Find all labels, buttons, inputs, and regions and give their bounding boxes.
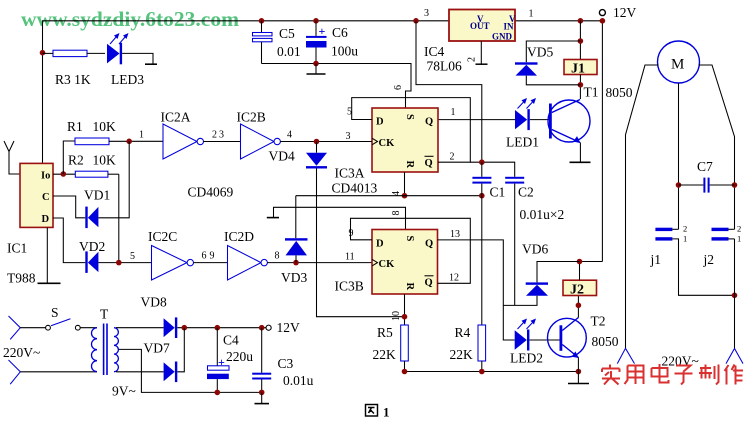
- svg-text:C4: C4: [223, 333, 239, 348]
- svg-text:Q: Q: [425, 239, 433, 250]
- svg-text:1: 1: [451, 107, 456, 118]
- svg-text:CK: CK: [379, 138, 396, 149]
- resistor R1: [67, 119, 163, 145]
- svg-text:5: 5: [130, 251, 135, 262]
- svg-text:J1: J1: [571, 62, 585, 77]
- diode VD1: [84, 188, 110, 229]
- wire prong to switch: [20, 327, 45, 329]
- capacitor C1: [472, 162, 505, 199]
- wire Io pin to R2: [53, 173, 75, 175]
- svg-text:T: T: [100, 307, 109, 322]
- chassis stub LED3: [145, 63, 157, 65]
- switch S: [46, 305, 81, 330]
- node Io: [61, 171, 67, 177]
- wire IC4 out to 12V corner: [515, 21, 602, 262]
- svg-text:LED3: LED3: [111, 72, 144, 87]
- svg-text:3: 3: [424, 8, 429, 19]
- ground stub S line: [267, 207, 406, 229]
- wire motor center lead: [678, 83, 680, 229]
- wire j2 down: [734, 239, 736, 349]
- 12V terminal left: [266, 325, 271, 330]
- wire IC3A R pin: [404, 172, 406, 196]
- wire IC3B Q pin13 to LED2: [438, 240, 515, 340]
- svg-text:IC2A: IC2A: [161, 110, 191, 125]
- inverter IC2D: [224, 229, 267, 280]
- wire bottom rail: [405, 371, 579, 373]
- wire J1 feed: [579, 21, 581, 60]
- svg-text:CD4013: CD4013: [332, 181, 378, 196]
- svg-text:10: 10: [391, 311, 402, 321]
- wire rail down x416 to cap node: [416, 21, 482, 163]
- node C3 bottom: [259, 390, 265, 396]
- svg-text:VD2: VD2: [79, 239, 105, 254]
- 12V terminal top: [599, 10, 605, 16]
- svg-text:R5: R5: [377, 325, 393, 340]
- node rail-12V: [600, 18, 606, 24]
- wire J2 top feed: [579, 262, 581, 281]
- IC U IC3B CD4013: [335, 230, 438, 295]
- char 制: [699, 365, 719, 385]
- wire motor left lead: [626, 65, 659, 348]
- LED LED3: [107, 33, 144, 87]
- svg-text:78L06: 78L06: [427, 59, 462, 74]
- plug 220V lower prong: [9, 360, 21, 384]
- svg-text:22K: 22K: [373, 347, 397, 362]
- svg-text:CD4069: CD4069: [188, 185, 234, 200]
- svg-text:2: 2: [212, 130, 217, 141]
- char 子: [675, 366, 693, 385]
- svg-text:8: 8: [391, 211, 402, 216]
- node C7 right: [732, 182, 738, 188]
- svg-text:C2: C2: [518, 185, 534, 200]
- svg-text:10K: 10K: [93, 119, 117, 134]
- svg-text:D: D: [376, 117, 384, 128]
- IC4 gnd stub pin2: [467, 41, 488, 64]
- svg-text:VD5: VD5: [527, 45, 553, 60]
- node VD5 bottom: [578, 82, 584, 88]
- svg-text:J2: J2: [570, 283, 584, 298]
- svg-text:8: 8: [275, 251, 280, 262]
- wire secondary top to VD8: [116, 327, 164, 329]
- plug prong motor left: [617, 348, 634, 363]
- node rail-C5: [259, 18, 265, 24]
- svg-text:9: 9: [210, 251, 215, 262]
- antenna: [4, 141, 20, 174]
- inverter IC2C: [148, 229, 194, 280]
- node R pin: [402, 193, 408, 199]
- char 作: [725, 365, 744, 385]
- motor M: [658, 41, 700, 83]
- ground T1: [570, 161, 591, 163]
- ground IC1: [38, 282, 61, 284]
- svg-text:VD3: VD3: [281, 270, 307, 285]
- wire T2 emitter: [577, 358, 579, 372]
- svg-text:IC2C: IC2C: [148, 229, 177, 244]
- node rail-C6: [313, 18, 319, 24]
- node J2 bottom: [576, 303, 582, 309]
- wire top 6V rail: [43, 21, 450, 164]
- wire motor right lead: [699, 65, 735, 229]
- svg-text:1: 1: [139, 130, 144, 141]
- ground C6: [307, 64, 326, 75]
- plug prong motor right: [726, 349, 743, 364]
- node rail-x416: [413, 18, 419, 24]
- svg-text:13: 13: [450, 229, 460, 240]
- transistor T1 8050: [548, 100, 590, 144]
- svg-text:3: 3: [219, 130, 224, 141]
- svg-text:GND: GND: [492, 32, 513, 42]
- IC U IC3A CD4013: [332, 108, 439, 196]
- svg-text:C: C: [42, 192, 50, 203]
- svg-text:+: +: [218, 355, 225, 369]
- node R5 top: [402, 314, 408, 320]
- node rail R4: [479, 369, 485, 375]
- diode VD4: [269, 142, 328, 169]
- node C3 top: [259, 325, 265, 331]
- node IC2A input: [126, 139, 132, 145]
- resistor R4: [450, 325, 486, 372]
- svg-text:IC2B: IC2B: [237, 110, 266, 125]
- wire VD7 up to node: [177, 328, 184, 372]
- svg-text:V: V: [509, 14, 516, 24]
- wire center tap to gnd rail: [119, 349, 262, 392]
- svg-text:100u: 100u: [331, 44, 358, 59]
- wire T2 collector to J2: [577, 296, 579, 318]
- node VD4: [314, 139, 320, 145]
- capacitor C6 electrolytic: [306, 21, 358, 64]
- svg-text:IC3B: IC3B: [335, 279, 364, 294]
- wire R2 to VD2 node: [118, 174, 120, 262]
- wire J1 to T1 collector: [579, 75, 581, 100]
- svg-text:www.sydzdiy.6to23.com: www.sydzdiy.6to23.com: [21, 7, 239, 31]
- svg-text:Q: Q: [425, 117, 433, 128]
- svg-text:T1: T1: [584, 85, 599, 100]
- plug 220V upper prong: [9, 316, 21, 339]
- wire R1 left leg: [63, 141, 75, 174]
- ground supply: [255, 392, 270, 403]
- svg-text:LED1: LED1: [506, 135, 539, 150]
- svg-text:R: R: [404, 283, 415, 291]
- LED LED1: [438, 98, 549, 150]
- capacitor C3: [252, 328, 313, 393]
- node C4 bottom: [215, 390, 221, 396]
- node rail-J1: [578, 18, 584, 24]
- node VD5 top: [578, 38, 584, 44]
- svg-text:C5: C5: [279, 26, 295, 41]
- wire LED3 to stub: [122, 53, 153, 63]
- resistor R5: [373, 325, 409, 372]
- wire R line to VD3 and C1: [296, 195, 482, 197]
- node C7 left: [676, 182, 682, 188]
- node rail T2: [576, 369, 582, 375]
- svg-text:6: 6: [393, 85, 404, 90]
- svg-text:12: 12: [449, 273, 459, 284]
- svg-text:0.01u: 0.01u: [283, 373, 314, 388]
- node R3 tap: [40, 50, 46, 56]
- IC U IC1 T988: [7, 163, 53, 285]
- svg-text:12V: 12V: [613, 5, 637, 20]
- transformer T primary coil: [92, 328, 98, 372]
- wire IC2B to IC3A CK: [281, 141, 373, 143]
- svg-text:S: S: [51, 305, 59, 320]
- caption 图 1: [366, 405, 390, 420]
- svg-text:C3: C3: [278, 356, 294, 371]
- svg-text:220V~: 220V~: [3, 345, 40, 360]
- diode VD3: [281, 196, 308, 285]
- svg-text:VD4: VD4: [269, 149, 295, 164]
- svg-text:R3 1K: R3 1K: [55, 72, 91, 87]
- svg-text:D: D: [42, 214, 50, 225]
- inverter IC2A: [161, 110, 204, 160]
- svg-text:VD7: VD7: [144, 341, 170, 356]
- svg-text:2: 2: [737, 224, 741, 234]
- wire 12V down right side: [580, 261, 603, 263]
- connector j1: [650, 224, 735, 296]
- wire C pin to VD1: [53, 196, 85, 218]
- svg-text:R2: R2: [68, 153, 84, 168]
- svg-text:C6: C6: [332, 25, 348, 40]
- svg-text:S: S: [404, 114, 415, 120]
- svg-text:T988: T988: [7, 271, 36, 286]
- svg-text:IC2D: IC2D: [224, 229, 254, 244]
- char 用: [625, 366, 644, 385]
- capacitor C7: [679, 159, 735, 193]
- svg-text:R1: R1: [67, 119, 83, 134]
- transformer T secondary coil: [114, 328, 118, 372]
- svg-text:9: 9: [349, 228, 354, 239]
- wire IC2A node down to VD1: [98, 141, 129, 218]
- wire VD2 to IC2C: [98, 262, 151, 264]
- svg-text:5: 5: [347, 107, 352, 118]
- wire secondary bottom to VD7: [116, 371, 164, 373]
- wire IC3A D loop to Qbar: [352, 98, 471, 163]
- svg-text:C1: C1: [490, 185, 506, 200]
- wire IC1 gnd: [46, 227, 48, 283]
- svg-text:1: 1: [683, 234, 687, 244]
- diode VD5: [515, 41, 580, 85]
- svg-text:Io: Io: [41, 171, 50, 182]
- connector j2: [703, 224, 742, 268]
- svg-text:VD6: VD6: [522, 242, 548, 257]
- node J2 top: [577, 259, 583, 265]
- wire VD8 to 12V line: [177, 327, 266, 329]
- svg-text:Q: Q: [425, 158, 433, 169]
- svg-text:Q: Q: [425, 278, 433, 289]
- resistor R2: [68, 153, 119, 178]
- transistor T2 8050: [548, 318, 587, 359]
- node C1 top: [479, 159, 485, 165]
- node C6 gnd: [313, 61, 319, 67]
- diode VD8: [141, 295, 178, 339]
- svg-text:11: 11: [345, 252, 355, 263]
- wire D pin to VD2: [53, 218, 85, 263]
- capacitor C2: [505, 177, 564, 306]
- wire IC2A to IC2B: [204, 141, 241, 143]
- svg-text:2: 2: [450, 152, 455, 163]
- node VD3: [293, 260, 299, 266]
- svg-text:220u: 220u: [226, 349, 253, 364]
- svg-text:C7: C7: [697, 159, 713, 174]
- wire switch to transformer: [80, 327, 97, 329]
- node C4 top: [215, 325, 221, 331]
- inverter IC2B: [237, 110, 281, 160]
- wire T1 emitter to ground: [579, 143, 581, 163]
- svg-text:0.01u×2: 0.01u×2: [520, 207, 565, 222]
- svg-text:M: M: [671, 57, 684, 73]
- svg-text:4: 4: [287, 130, 292, 141]
- svg-text:IC4: IC4: [424, 44, 445, 59]
- svg-text:22K: 22K: [450, 347, 474, 362]
- watermark 实用电子制作 red: [602, 364, 743, 385]
- resistor R3: [43, 50, 106, 87]
- node rail R5: [402, 369, 408, 375]
- svg-text:2: 2: [683, 224, 687, 234]
- svg-text:1: 1: [737, 234, 741, 244]
- svg-text:10K: 10K: [93, 153, 117, 168]
- svg-text:12V: 12V: [277, 320, 301, 335]
- diode VD2: [79, 239, 105, 273]
- svg-text:D: D: [376, 239, 384, 250]
- wire gnd rail C5 C6 to IC3A S pin: [262, 64, 412, 109]
- svg-text:LED2: LED2: [510, 351, 543, 366]
- svg-text:S: S: [404, 236, 415, 242]
- char 电: [652, 364, 669, 383]
- svg-text:9V~: 9V~: [112, 384, 136, 399]
- wire VD4 down to IC3B R line: [317, 169, 405, 317]
- node VD8 out: [182, 325, 188, 331]
- capacitor C5: [253, 21, 301, 64]
- capacitor C4 electrolytic: [207, 328, 253, 393]
- svg-text:V: V: [477, 14, 484, 24]
- svg-text:VD1: VD1: [84, 188, 110, 203]
- wire IC3B D loop to Qbar: [351, 218, 471, 283]
- diode VD7: [144, 341, 178, 383]
- svg-text:IC3A: IC3A: [335, 166, 365, 181]
- IC U IC4 78L06: [424, 8, 534, 74]
- wire IC3A Qbar node to C2: [470, 162, 514, 177]
- svg-text:0.01: 0.01: [277, 44, 301, 59]
- svg-text:6: 6: [202, 251, 207, 262]
- svg-text:IC1: IC1: [7, 241, 27, 256]
- wire IC2D to IC3B CK: [268, 262, 373, 264]
- node VD2 out: [116, 260, 122, 266]
- relay J1: [564, 60, 597, 77]
- svg-text:j1: j1: [650, 252, 662, 267]
- svg-text:8050: 8050: [606, 85, 633, 100]
- svg-text:VD8: VD8: [141, 295, 167, 310]
- svg-text:R: R: [404, 161, 415, 169]
- transformer core: [104, 324, 107, 376]
- diode VD6: [503, 242, 579, 306]
- relay J2: [563, 280, 597, 297]
- svg-text:8050: 8050: [592, 334, 619, 349]
- svg-text:1: 1: [529, 9, 534, 20]
- wire IC2C to IC2D: [194, 262, 228, 264]
- svg-text:3: 3: [346, 131, 351, 142]
- wire lower prong to primary: [20, 371, 97, 373]
- char 实: [602, 365, 620, 385]
- LED LED2: [510, 319, 560, 366]
- svg-text:T2: T2: [591, 314, 606, 329]
- ground T2: [568, 372, 589, 384]
- svg-text:R4: R4: [455, 325, 471, 340]
- svg-text:j2: j2: [703, 252, 715, 267]
- svg-text:1: 1: [383, 405, 390, 420]
- svg-text:2: 2: [467, 57, 478, 62]
- wire IC3B R pin: [404, 294, 406, 325]
- node C1 bottom: [479, 193, 485, 199]
- wire C1 down to R4: [481, 196, 483, 325]
- node j bottom: [732, 293, 738, 299]
- svg-text:CK: CK: [379, 259, 396, 270]
